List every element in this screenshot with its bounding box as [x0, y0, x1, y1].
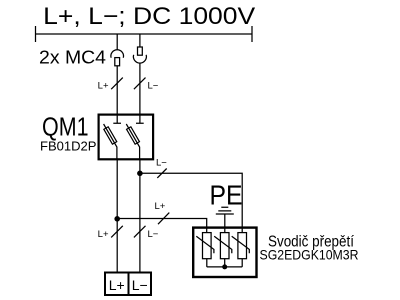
connector X2 pin [138, 47, 143, 55]
conductor mark L- branch [157, 169, 166, 178]
svg-text:FB01D2P: FB01D2P [40, 139, 97, 154]
varistor 3 body [238, 233, 247, 259]
varistor 3 stroke [232, 236, 250, 253]
dimension bracket [36, 26, 253, 42]
QM1 pole 2 top contact [136, 115, 144, 124]
terminal block L+ [105, 273, 129, 296]
wire bracket to connector X1 [116, 34, 118, 50]
svg-text:PE: PE [210, 179, 243, 210]
QM1 pole 2 fuse body [127, 127, 140, 144]
varistor 3 bottom stub [241, 259, 243, 267]
wire L- QM1 to terminal [139, 159, 141, 272]
QM1 pole 2 fuse blade [126, 124, 139, 160]
surge arrester box [193, 228, 256, 277]
QM1 pole 1 top contact [113, 115, 121, 124]
wire connector X2 to QM1 [139, 63, 141, 115]
varistor 1 stroke [196, 236, 214, 253]
svg-text:L−: L− [156, 158, 167, 169]
conductor mark L- upper [134, 78, 146, 90]
svg-text:L+, L−; DC 1000V: L+, L−; DC 1000V [43, 3, 255, 30]
svg-text:2x MC4: 2x MC4 [39, 48, 106, 68]
QM1 pole 1 fuse body [104, 127, 117, 144]
svg-text:SG2EDGK10M3R: SG2EDGK10M3R [260, 247, 359, 263]
conductor mark L+ upper [111, 78, 123, 90]
junction dot L- [137, 171, 143, 177]
connector X2 socket arc [133, 55, 146, 63]
svg-text:L+: L+ [155, 201, 166, 212]
wire connector X1 to QM1 [116, 66, 118, 115]
fuse-switch QM1 box [99, 115, 154, 160]
svg-text:L+: L+ [109, 277, 125, 293]
svg-text:L−: L− [132, 277, 148, 293]
varistor 1 body [203, 233, 212, 259]
svg-text:L+: L+ [98, 229, 109, 240]
svg-text:L−: L− [148, 229, 159, 240]
svg-text:QM1: QM1 [42, 112, 89, 142]
conductor mark L+ lower [111, 226, 123, 238]
varistor 2 body [220, 233, 229, 259]
conductor mark L+ branch [158, 213, 169, 225]
branch wire L- to arrester [140, 173, 242, 232]
junction dot L+ [114, 216, 120, 222]
svg-text:L+: L+ [98, 81, 109, 92]
earth symbol [216, 207, 234, 214]
varistor 2 bottom stub [224, 259, 226, 267]
junction dot bus [222, 264, 227, 269]
terminal block L- [129, 273, 152, 296]
branch wire L+ to arrester [117, 219, 207, 233]
earth stem to varistor [224, 214, 226, 233]
connector X1 socket arc [111, 50, 124, 58]
QM1 pole 1 fuse blade [104, 124, 117, 160]
varistor 2 stroke [214, 236, 232, 253]
svg-text:L−: L− [148, 81, 159, 92]
arrester common bus [207, 266, 242, 268]
connector X1 pin [115, 58, 120, 66]
varistor 1 bottom stub [206, 259, 208, 267]
conductor mark L- lower [134, 226, 146, 238]
wire bracket to connector X2 [139, 34, 141, 47]
wire L+ QM1 to terminal [116, 159, 118, 272]
